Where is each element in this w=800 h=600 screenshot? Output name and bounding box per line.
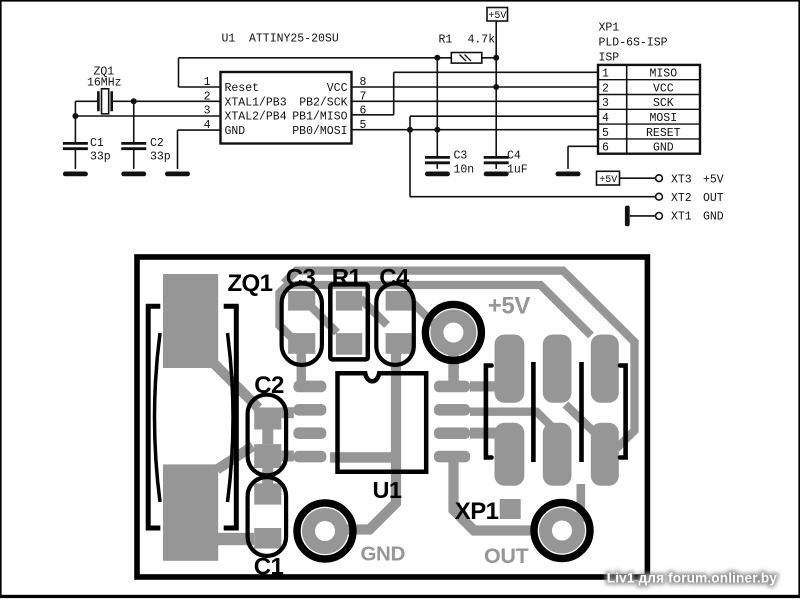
svg-text:SCK: SCK <box>653 97 674 110</box>
svg-text:+5V: +5V <box>599 175 617 186</box>
svg-text:OUT: OUT <box>484 544 528 568</box>
svg-text:ZQ1: ZQ1 <box>228 270 273 297</box>
svg-text:ISP: ISP <box>599 52 620 65</box>
svg-text:GND: GND <box>703 211 724 224</box>
svg-text:16MHz: 16MHz <box>87 77 122 90</box>
svg-text:5: 5 <box>360 119 367 132</box>
svg-text:PB1/MISO: PB1/MISO <box>292 111 347 124</box>
svg-text:8: 8 <box>360 76 367 89</box>
svg-text:GND: GND <box>653 142 674 155</box>
svg-text:4.7k: 4.7k <box>468 34 496 47</box>
svg-text:XTAL1/PB3: XTAL1/PB3 <box>225 96 287 109</box>
svg-text:7: 7 <box>360 90 367 103</box>
svg-text:XP1: XP1 <box>599 22 620 35</box>
svg-text:XT2: XT2 <box>671 192 692 205</box>
svg-text:R1: R1 <box>439 34 453 47</box>
svg-text:OUT: OUT <box>703 192 724 205</box>
svg-text:XP1: XP1 <box>455 498 499 525</box>
svg-text:5: 5 <box>602 127 609 140</box>
svg-text:PB2/SCK: PB2/SCK <box>299 96 347 109</box>
svg-text:33p: 33p <box>150 151 171 164</box>
svg-text:MOSI: MOSI <box>649 112 677 125</box>
svg-text:C3: C3 <box>286 265 316 292</box>
svg-text:XT3: XT3 <box>671 173 692 186</box>
svg-text:VCC: VCC <box>327 82 348 95</box>
svg-text:C1: C1 <box>254 554 284 581</box>
svg-text:3: 3 <box>204 105 211 118</box>
svg-text:1uF: 1uF <box>507 164 528 177</box>
svg-text:6: 6 <box>360 105 367 118</box>
svg-text:U1: U1 <box>222 33 236 46</box>
svg-text:1: 1 <box>204 76 211 89</box>
svg-text:C2: C2 <box>150 137 164 150</box>
svg-text:GND: GND <box>361 543 405 566</box>
svg-text:Liv1 для forum.onliner.by: Liv1 для forum.onliner.by <box>607 571 777 586</box>
svg-text:4: 4 <box>602 112 609 125</box>
svg-text:6: 6 <box>602 142 609 155</box>
svg-text:C4: C4 <box>507 150 521 163</box>
svg-text:C3: C3 <box>454 150 468 163</box>
svg-text:33p: 33p <box>90 151 111 164</box>
svg-text:PLD-6S-ISP: PLD-6S-ISP <box>599 37 668 50</box>
svg-text:+5V: +5V <box>488 293 531 320</box>
svg-text:C4: C4 <box>379 265 410 292</box>
svg-text:4: 4 <box>204 119 211 132</box>
svg-text:MISO: MISO <box>649 68 677 81</box>
svg-text:C1: C1 <box>90 137 104 150</box>
svg-text:3: 3 <box>602 97 609 110</box>
svg-text:R1: R1 <box>332 265 362 292</box>
svg-text:RESET: RESET <box>646 127 681 140</box>
svg-text:GND: GND <box>225 125 246 138</box>
svg-text:Reset: Reset <box>225 82 260 95</box>
svg-text:2: 2 <box>204 90 211 103</box>
svg-text:XT1: XT1 <box>671 211 692 224</box>
svg-text:+5V: +5V <box>703 173 724 186</box>
svg-text:PB0/MOSI: PB0/MOSI <box>292 125 347 138</box>
svg-text:ATTINY25-20SU: ATTINY25-20SU <box>249 33 339 46</box>
svg-text:10n: 10n <box>454 164 475 177</box>
svg-text:VCC: VCC <box>653 82 674 95</box>
svg-text:XTAL2/PB4: XTAL2/PB4 <box>225 111 287 124</box>
svg-text:1: 1 <box>602 68 609 81</box>
svg-text:2: 2 <box>602 82 609 95</box>
svg-text:C2: C2 <box>254 372 284 399</box>
svg-text:U1: U1 <box>373 477 402 503</box>
svg-text:+5V: +5V <box>488 11 506 22</box>
